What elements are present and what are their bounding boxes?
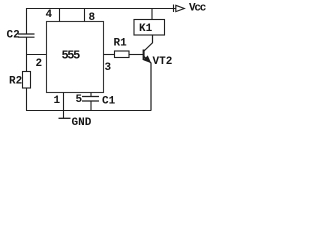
svg-text:1: 1 [54, 95, 61, 107]
transistor Q2 base bar [143, 50, 145, 61]
wire K1 to top rail [151, 9, 153, 20]
svg-text:R1: R1 [114, 38, 128, 50]
wire R1 to base [129, 54, 144, 56]
Vcc arrow tick [173, 5, 175, 13]
svg-text:VT2: VT2 [153, 56, 173, 68]
relay K1 [134, 20, 165, 36]
svg-text:C2: C2 [7, 30, 20, 42]
capacitor C1 [82, 97, 99, 102]
svg-text:K1: K1 [139, 23, 153, 35]
wire top rail Vcc [27, 9, 177, 35]
wire C1 to bottom rail [90, 101, 92, 111]
op-amp U1 555 timer box [47, 22, 104, 93]
svg-text:R2: R2 [9, 76, 22, 88]
svg-text:3: 3 [105, 62, 112, 74]
resistor R2 [23, 72, 31, 89]
wire bottom rail [26, 110, 151, 112]
transistor Q2 collector [144, 35, 153, 51]
wire pin2 [27, 54, 47, 56]
svg-text:Vcc: Vcc [189, 3, 206, 15]
svg-text:GND: GND [72, 117, 92, 129]
wire R2 to bottom rail [26, 88, 28, 111]
svg-text:4: 4 [46, 9, 53, 21]
transistor Q2 emitter [144, 57, 151, 111]
svg-text:555: 555 [62, 49, 81, 63]
transistor Q2 emitter arrow [144, 56, 151, 63]
wire pin5 [90, 93, 92, 97]
resistor R1 [115, 51, 130, 58]
capacitor C2 [18, 34, 35, 37]
wire pin4 [59, 9, 61, 22]
Vcc arrowhead [176, 5, 185, 11]
wire pin1 to ground [63, 93, 65, 119]
svg-text:5: 5 [76, 94, 83, 106]
wire C2 to R2 [26, 37, 28, 71]
svg-text:C1: C1 [102, 96, 116, 108]
ground [59, 117, 71, 119]
svg-text:8: 8 [89, 12, 96, 24]
wire pin8 [84, 9, 86, 22]
wire pin3 [104, 54, 115, 56]
svg-text:2: 2 [36, 58, 43, 70]
